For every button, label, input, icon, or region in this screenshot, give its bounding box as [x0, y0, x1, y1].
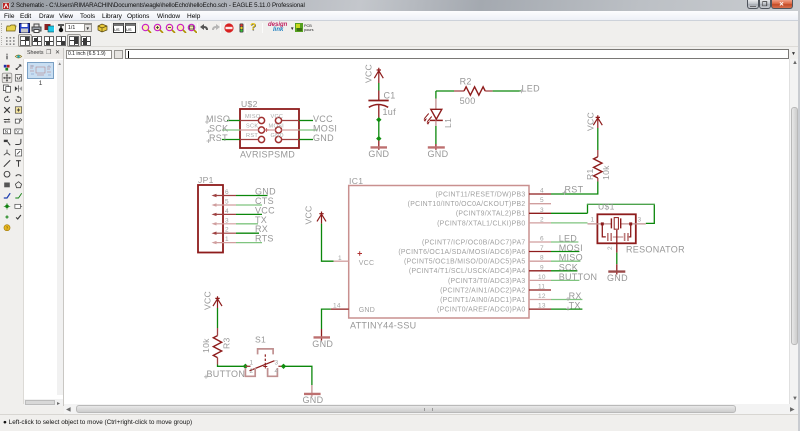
svg-text:1: 1 [250, 360, 254, 367]
svg-text:VCC: VCC [586, 112, 596, 131]
svg-text:VCC: VCC [203, 291, 213, 310]
svg-text:GND: GND [312, 339, 333, 349]
svg-text:MISO: MISO [245, 114, 261, 120]
svg-text:MISO: MISO [206, 114, 230, 124]
S1 plunger (dashed) [264, 354, 266, 364]
wire VCC to R3 [217, 308, 219, 328]
svg-text:IC1: IC1 [349, 176, 363, 186]
svg-text:BUTTON: BUTTON [559, 272, 598, 282]
U$2 inner pin names [245, 114, 284, 139]
wire net RX (IC1 pin 12) [551, 299, 582, 301]
wire S1 to GND [284, 366, 312, 385]
U$2 pin stubs row RST/GND [240, 139, 299, 141]
net labels right of U$2 [313, 114, 337, 143]
junction dot [376, 117, 381, 122]
svg-text:8: 8 [540, 255, 544, 262]
resistor R3 bottom lead [217, 358, 219, 365]
resonator pin 1 [588, 223, 612, 225]
svg-text:GND: GND [368, 149, 389, 159]
wire VCC to C1 [378, 83, 380, 91]
resonator U$1 body [597, 214, 635, 243]
svg-text:2: 2 [540, 216, 544, 223]
wire net GND (JP1-6) [236, 195, 268, 197]
left command toolbar icons [0, 50, 24, 300]
LED L1 cathode bar [430, 119, 443, 121]
crystal plates [611, 218, 620, 228]
S1 left pin hook [245, 368, 255, 376]
svg-text:S1: S1 [255, 334, 266, 344]
svg-text:4: 4 [225, 208, 229, 215]
IC1 pin 14 stub [331, 308, 349, 310]
svg-text:SCK: SCK [209, 124, 228, 134]
LED L1 triangle [431, 109, 442, 119]
svg-text:(PCINT9/XTAL2)PB1: (PCINT9/XTAL2)PB1 [456, 211, 526, 218]
svg-text:VCC: VCC [364, 64, 374, 83]
IC1 pin 7 stub [529, 251, 551, 253]
status bar [0, 414, 800, 431]
svg-text:3: 3 [540, 207, 544, 214]
menu bar [0, 11, 800, 21]
center bar to pin 2 [613, 236, 623, 238]
IC1 pin 9 stub [529, 270, 551, 272]
wire net SCK (to U$2) [222, 129, 240, 131]
VCC supply symbol (IC1) [317, 212, 326, 224]
resistor R1 zigzag [594, 157, 602, 178]
svg-text:(PCINT7/ICP/OC0B/ADC7)PA7: (PCINT7/ICP/OC0B/ADC7)PA7 [422, 239, 525, 246]
crystal body rect [614, 218, 618, 230]
IC1 origin cross [358, 251, 363, 256]
svg-text:RST: RST [209, 133, 228, 143]
svg-text:LED: LED [522, 83, 541, 93]
svg-text:1uf: 1uf [383, 107, 397, 117]
wire net SCK (IC1 pin 9) [551, 270, 577, 272]
svg-text:MISO: MISO [559, 253, 583, 263]
VCC supply symbol (R3) [213, 296, 222, 308]
svg-text:R1: R1 [585, 168, 595, 180]
svg-text:AVRISPSMD: AVRISPSMD [240, 150, 295, 160]
top rail wire [587, 203, 655, 205]
resistor R3 top lead [217, 328, 219, 336]
JP1 pin 4 [214, 213, 237, 215]
S1 right pin hook [268, 368, 278, 376]
capacitor C1 plates [368, 100, 388, 102]
svg-text:ATTINY44-SSU: ATTINY44-SSU [350, 321, 416, 331]
svg-text:R3: R3 [222, 337, 232, 349]
wire C1 to GND [378, 120, 380, 139]
svg-text:GND: GND [428, 149, 449, 159]
svg-text:GND: GND [255, 187, 276, 197]
svg-text:(PCINT3/T0/ADC3)PA3: (PCINT3/T0/ADC3)PA3 [448, 278, 526, 285]
svg-text:RX: RX [569, 291, 582, 301]
LED L1 emission arrows [424, 114, 432, 122]
svg-text:TX: TX [569, 301, 581, 311]
GND pin below C1 [378, 141, 380, 150]
resonator pin 3 [621, 223, 646, 225]
svg-text:GND: GND [313, 133, 334, 143]
svg-text:13: 13 [538, 303, 546, 310]
S1 pin numbers [250, 360, 279, 375]
U$2 pin stubs row SCK/MOSI [240, 129, 299, 131]
ground symbol (C1) [371, 146, 388, 148]
left capacitor plates [608, 233, 611, 241]
svg-text:(PCINT4/T1/SCL/USCK/ADC4)PA4: (PCINT4/T1/SCL/USCK/ADC4)PA4 [409, 268, 526, 275]
capacitor C1 bottom pin [378, 105, 380, 120]
svg-text:MOSI: MOSI [269, 124, 285, 130]
wire net MOSI (IC1 pin 7) [551, 251, 579, 253]
svg-text:RESONATOR: RESONATOR [626, 244, 685, 254]
resistor R3 zigzag [213, 336, 221, 358]
wire net MISO (IC1 pin 8) [551, 260, 580, 262]
U$2 pin stubs row MISO/VCC [240, 120, 299, 122]
IC1 pin 2 stub [529, 222, 551, 224]
svg-text:VCC: VCC [271, 114, 284, 120]
svg-text:RST: RST [246, 133, 258, 139]
svg-text:BUTTON: BUTTON [207, 369, 246, 379]
svg-text:R2: R2 [460, 77, 472, 87]
svg-text:500: 500 [460, 96, 476, 106]
left tool column [0, 59, 24, 404]
svg-text:(PCINT5/OC1B/MISO/D0/ADC5)PA5: (PCINT5/OC1B/MISO/D0/ADC5)PA5 [404, 259, 526, 266]
label origin crosses U$2 [205, 120, 211, 143]
IC1 pin 13 stub [529, 308, 551, 310]
wire riser to top rail [588, 204, 655, 223]
wire LED net to R2 [493, 90, 521, 92]
svg-text:(PCINT11/RESET/DW)PB3: (PCINT11/RESET/DW)PB3 [435, 191, 525, 198]
svg-text:3: 3 [225, 217, 229, 224]
svg-text:GND: GND [303, 395, 324, 404]
svg-text:U$1: U$1 [598, 202, 615, 212]
IC1 pin 4 stub [529, 193, 551, 195]
S1 origin cross [263, 365, 267, 369]
svg-text:SCK: SCK [246, 124, 258, 130]
resonator pin 2 lead [616, 230, 618, 253]
right capacitor plates [625, 233, 628, 241]
svg-text:VCC: VCC [304, 205, 314, 224]
S1 top bracket [258, 349, 274, 355]
wire net RX (JP1-2) [236, 232, 259, 234]
svg-text:7: 7 [540, 245, 544, 252]
wire IC1 pin 2 to resonator pin 1 [551, 222, 588, 224]
svg-text:2: 2 [250, 368, 254, 375]
JP1 pin 1 [214, 242, 237, 244]
svg-text:(PCINT0/AREF/ADC0)PA0: (PCINT0/AREF/ADC0)PA0 [437, 307, 526, 314]
svg-text:10k: 10k [601, 165, 611, 180]
wire net BUTTON (IC1 pin 10) [551, 279, 579, 281]
wire net RST (to U$2) [222, 139, 240, 141]
title bar [0, 0, 800, 11]
U$2 origin cross [265, 128, 269, 132]
svg-text:3: 3 [275, 360, 279, 367]
ground symbol (L1) [428, 146, 445, 148]
wire net MOSI (from U$2) [299, 129, 317, 131]
svg-text:9: 9 [540, 264, 544, 271]
svg-text:GND: GND [359, 307, 375, 314]
wire R1 to RST [551, 182, 598, 195]
wire VCC to IC1 pin 1 [322, 224, 334, 262]
connector U$2 AVRISPSMD body [240, 109, 299, 148]
svg-text:C1: C1 [384, 91, 396, 101]
svg-text:VCC: VCC [313, 114, 333, 124]
wire net RTS (JP1-1) [236, 242, 262, 244]
IC IC1 ATTINY44 body [349, 186, 529, 319]
wire IC1 pin 14 to GND [322, 309, 331, 329]
wire net MISO (to U$2) [227, 120, 240, 122]
S1 pin contacts [245, 365, 283, 367]
svg-text:JP1: JP1 [198, 175, 214, 185]
wire net TX (JP1-3) [236, 223, 258, 225]
IC1 pin 8 stub [529, 260, 551, 262]
JP1 pin 6 [214, 195, 237, 197]
resistor R1 bottom lead [597, 178, 599, 182]
JP1 net labels [255, 187, 276, 244]
svg-text:GND: GND [607, 273, 628, 283]
IC1 pin 12 stub [529, 299, 551, 301]
svg-text:3: 3 [638, 216, 642, 223]
toolbar row 2 [0, 34, 800, 47]
resistor R2 zigzag [464, 87, 485, 95]
svg-text:4: 4 [540, 188, 544, 195]
svg-text:(PCINT8/XTAL1/CLKI)PB0: (PCINT8/XTAL1/CLKI)PB0 [437, 220, 525, 227]
svg-text:N: N [5, 129, 9, 135]
IC1 pin 3 stub [529, 212, 551, 214]
svg-text:GND: GND [271, 133, 284, 139]
resonator right cap hook [627, 224, 631, 237]
wire net LED (IC1 pin 6) [551, 241, 578, 243]
svg-text:MOSI: MOSI [559, 243, 583, 253]
wire resonator pin 2 to GND [616, 253, 618, 265]
svg-text:5: 5 [540, 197, 544, 204]
canvas with schematic [64, 59, 789, 404]
GND pin (IC1) [321, 329, 323, 341]
svg-text:SCK: SCK [559, 262, 578, 272]
svg-text:VCC: VCC [359, 260, 375, 267]
svg-text:(PCINT1/AIN0/ADC1)PA1: (PCINT1/AIN0/ADC1)PA1 [440, 297, 525, 304]
junction dot [376, 136, 381, 141]
wire LED to GND [435, 126, 437, 144]
wire net GND (from U$2) [299, 139, 313, 141]
ground symbol (U$1) [608, 270, 625, 272]
JP1 pin 5 [214, 204, 237, 206]
svg-text:10: 10 [538, 274, 546, 281]
row 3: sheets header + coordinate + command [0, 48, 800, 59]
svg-text:10k: 10k [201, 338, 211, 353]
S1 junction pin 3 [281, 364, 286, 369]
svg-text:2: 2 [607, 246, 614, 250]
LED L1 anode pin [435, 99, 437, 110]
svg-text:12: 12 [538, 293, 546, 300]
R2 leads [454, 90, 493, 92]
svg-text:5: 5 [225, 199, 229, 206]
pin header JP1 body [198, 185, 223, 253]
resistor R1 top lead [597, 150, 599, 157]
capacitor C1 top pin [378, 91, 380, 101]
svg-text:11: 11 [538, 284, 545, 291]
svg-text:1: 1 [338, 255, 342, 262]
VCC supply symbol (C1) [374, 68, 383, 83]
toolbar row 1 [0, 21, 800, 35]
IC1 pin 1 stub [334, 260, 349, 262]
svg-text:RST: RST [565, 185, 584, 195]
svg-text:6: 6 [540, 236, 544, 243]
wire net VCC (from U$2) [299, 120, 313, 122]
wire VCC to R1 [597, 128, 599, 150]
S1 lever [250, 361, 275, 371]
wire net VCC (JP1-4) [236, 213, 262, 215]
IC1 pin 10 stub [529, 279, 551, 281]
JP1 pin 3 [214, 223, 237, 225]
svg-text:U$2: U$2 [241, 99, 258, 109]
IC1 pin 11 stub [529, 289, 551, 291]
wire net CTS (JP1-5) [236, 204, 262, 206]
VCC supply symbol (R1) [593, 115, 602, 128]
svg-text:2: 2 [225, 227, 229, 234]
net labels left of U$2 [206, 114, 230, 143]
svg-text:(PCINT6/OC1A/SDA/MOSI/ADC6)PA6: (PCINT6/OC1A/SDA/MOSI/ADC6)PA6 [398, 249, 525, 256]
IC1 pin function labels [398, 191, 525, 313]
svg-text:1: 1 [591, 216, 595, 223]
svg-text:4: 4 [275, 368, 279, 375]
IC1 pin 5 stub [529, 203, 551, 205]
svg-text:6: 6 [225, 189, 229, 196]
wire net TX (IC1 pin 13) [551, 308, 582, 310]
ground symbol (S1) [304, 393, 321, 395]
svg-text:MOSI: MOSI [313, 124, 337, 134]
svg-text:14: 14 [333, 302, 341, 309]
JP1 pin numbers [225, 189, 229, 243]
svg-text:US: US [126, 27, 132, 32]
scrollbars [789, 59, 798, 404]
wire IC1 pin 3 to resonator pin 3 [551, 212, 588, 214]
GND pin (S1) [311, 385, 313, 397]
LED L1 cathode pin [435, 120, 437, 126]
svg-text:US: US [114, 27, 120, 32]
svg-text:L1: L1 [443, 118, 453, 128]
svg-text:1: 1 [225, 236, 229, 243]
svg-text:(PCINT10/INT0/OC0A/CKOUT)PB2: (PCINT10/INT0/OC0A/CKOUT)PB2 [408, 201, 526, 208]
sheets panel [24, 59, 64, 406]
S1 junction pin 1 [243, 364, 248, 369]
wire R3 to S1 [218, 365, 246, 367]
svg-text:RTS: RTS [255, 234, 274, 244]
svg-text:(PCINT2/AIN1/ADC2)PA2: (PCINT2/AIN1/ADC2)PA2 [440, 287, 525, 294]
IC1 pin numbers right [538, 188, 546, 310]
ground symbol (IC1) [314, 336, 331, 338]
IC1 pin 6 stub [529, 241, 551, 243]
JP1 pin 2 [214, 232, 237, 234]
svg-text:LED: LED [559, 234, 578, 244]
wire R2 to LED anode [436, 91, 454, 99]
U$2 pads (6 circles) [258, 117, 281, 142]
resonator left cap hook [602, 224, 606, 237]
